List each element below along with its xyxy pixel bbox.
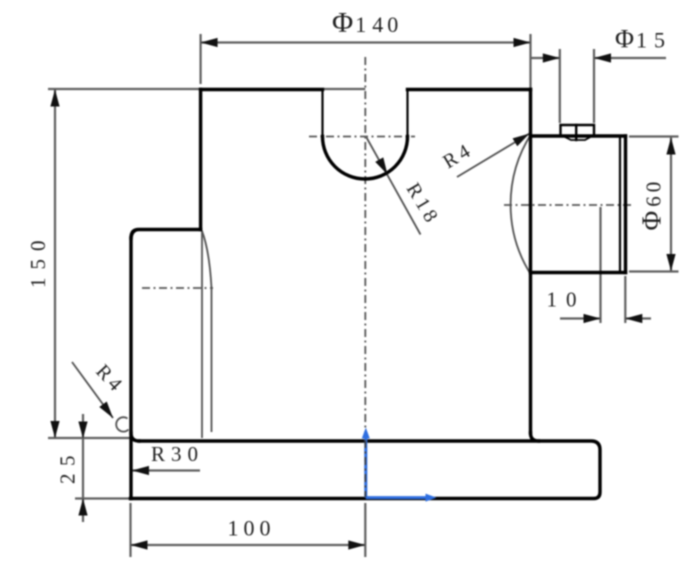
svg-text:25: 25 [56,448,80,484]
svg-text:10: 10 [547,288,586,312]
svg-text:100: 100 [228,516,276,541]
svg-text:Φ140: Φ140 [332,7,400,39]
svg-text:Φ60: Φ60 [637,178,667,231]
svg-text:Φ15: Φ15 [615,25,667,54]
svg-text:150: 150 [26,233,50,289]
svg-text:R30: R30 [151,442,204,466]
